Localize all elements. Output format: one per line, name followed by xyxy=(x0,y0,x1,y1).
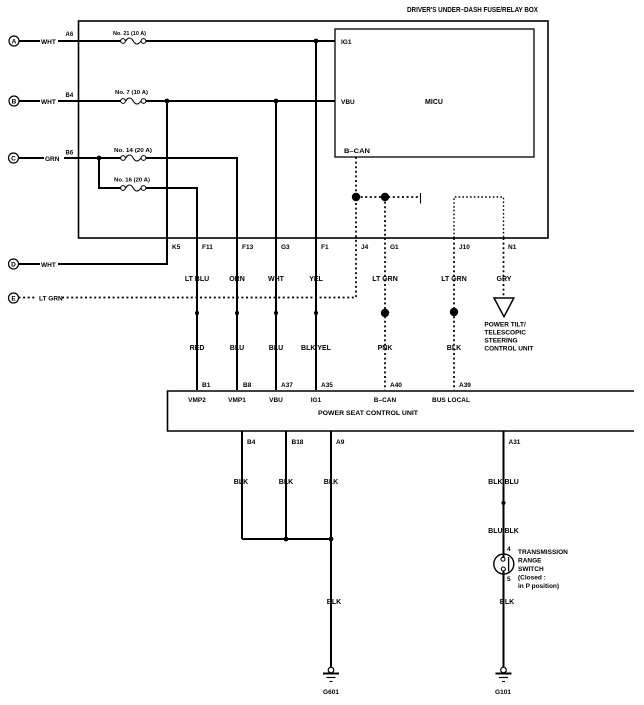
svg-text:No. 21 (10 A): No. 21 (10 A) xyxy=(113,31,146,37)
svg-text:B–CAN: B–CAN xyxy=(374,397,397,404)
svg-text:LT GRN: LT GRN xyxy=(441,276,467,283)
fuse No. 21 (10 A) xyxy=(113,31,146,44)
junction dot A9 join xyxy=(329,537,334,542)
svg-text:B6: B6 xyxy=(66,151,74,157)
svg-text:BLK: BLK xyxy=(500,599,514,606)
ground G101 xyxy=(495,667,511,696)
svg-text:G601: G601 xyxy=(323,689,339,696)
svg-text:RANGE: RANGE xyxy=(518,558,542,565)
junction dot B18 join xyxy=(284,537,289,542)
wire N1 dotted below box xyxy=(503,238,505,296)
svg-text:B4: B4 xyxy=(66,93,74,99)
svg-text:B18: B18 xyxy=(292,439,304,446)
wire K5 vertical inside box xyxy=(166,101,168,238)
svg-text:ORN: ORN xyxy=(229,276,245,283)
wire B4 below box xyxy=(241,431,243,539)
svg-text:SWITCH: SWITCH xyxy=(518,566,544,573)
svg-text:GRN: GRN xyxy=(45,156,60,163)
connector D xyxy=(9,259,56,269)
svg-text:TRANSMISSION: TRANSMISSION xyxy=(518,549,568,556)
svg-text:LT GRN: LT GRN xyxy=(39,296,63,303)
svg-text:MICU: MICU xyxy=(425,99,443,106)
svg-text:WHT: WHT xyxy=(41,99,56,106)
B-CAN dotted net inside box xyxy=(356,157,421,238)
svg-text:A37: A37 xyxy=(281,382,293,389)
svg-text:4: 4 xyxy=(507,546,511,553)
svg-text:No. 7 (10 A): No. 7 (10 A) xyxy=(115,90,148,96)
svg-text:B–CAN: B–CAN xyxy=(344,148,370,155)
svg-text:in P position): in P position) xyxy=(518,583,559,590)
dotted link J10 to N1 inside box xyxy=(454,197,504,238)
BLK labels row xyxy=(234,479,519,486)
svg-text:E: E xyxy=(11,296,16,303)
wire F13 below box xyxy=(236,238,238,390)
svg-text:BLK: BLK xyxy=(447,345,461,352)
svg-text:BLK: BLK xyxy=(279,479,293,486)
svg-text:BLU/BLK: BLU/BLK xyxy=(488,528,519,535)
svg-text:BUS LOCAL: BUS LOCAL xyxy=(432,397,470,404)
svg-text:F11: F11 xyxy=(202,244,213,251)
svg-text:BLK/YEL: BLK/YEL xyxy=(301,345,332,352)
svg-text:No. 16 (20 A): No. 16 (20 A) xyxy=(114,178,150,184)
connector E xyxy=(9,293,64,303)
svg-text:K5: K5 xyxy=(172,244,181,251)
wire F11 below box xyxy=(196,238,198,390)
svg-text:VMP2: VMP2 xyxy=(188,397,206,404)
svg-text:VBU: VBU xyxy=(341,99,355,106)
svg-text:A9: A9 xyxy=(336,439,345,446)
connector A xyxy=(9,32,74,46)
node K5 tap on wire B xyxy=(165,99,170,104)
svg-text:J4: J4 xyxy=(361,244,369,251)
wire A31 below box xyxy=(503,431,505,558)
wire colour labels upper row xyxy=(185,276,512,283)
svg-text:A6: A6 xyxy=(66,32,74,38)
transmission range switch S1 xyxy=(494,546,568,590)
wire G3 below box xyxy=(275,238,277,390)
svg-text:No. 14 (20 A): No. 14 (20 A) xyxy=(114,148,152,154)
driver's under-dash fuse/relay box xyxy=(79,7,549,238)
inline connector dot F11 wire xyxy=(195,311,199,315)
connector C xyxy=(9,151,74,164)
wire A9 below box xyxy=(330,431,332,667)
wire G3 vertical inside box xyxy=(275,101,277,238)
svg-text:B1: B1 xyxy=(202,382,211,389)
svg-text:STEERING: STEERING xyxy=(484,338,517,345)
MICU U1 xyxy=(335,29,534,157)
svg-text:BLK: BLK xyxy=(324,479,338,486)
ground G601 xyxy=(323,667,339,696)
wire colour labels lower row xyxy=(190,345,462,352)
pin labels above power seat control unit xyxy=(202,382,471,389)
svg-text:J10: J10 xyxy=(459,244,470,251)
wire fuse 14 output to F13 corner xyxy=(146,158,237,238)
wire A from fuse to MICU IG1 xyxy=(146,40,335,42)
svg-text:B4: B4 xyxy=(247,439,256,446)
svg-text:F13: F13 xyxy=(242,244,254,251)
power seat control unit box xyxy=(168,391,635,431)
wire F1 vertical inside box xyxy=(315,41,317,238)
svg-text:DRIVER'S UNDER–DASH FUSE/RELAY: DRIVER'S UNDER–DASH FUSE/RELAY BOX xyxy=(407,7,538,14)
wire C from label to fuse 14 xyxy=(64,157,121,159)
node F1 tap on wire A xyxy=(314,39,319,44)
inline connector dot F1 wire xyxy=(314,311,318,315)
fuse No. 7 (10 A) xyxy=(115,90,148,104)
wire E dotted to J4 xyxy=(62,238,356,298)
wire B from label to fuse xyxy=(58,100,121,102)
svg-text:GRY: GRY xyxy=(497,276,512,283)
svg-text:POWER TILT/: POWER TILT/ xyxy=(484,322,526,329)
svg-text:A35: A35 xyxy=(321,382,333,389)
svg-text:BLU: BLU xyxy=(269,345,283,352)
junction dot B-CAN/G1 xyxy=(381,193,389,201)
svg-text:WHT: WHT xyxy=(41,39,56,46)
svg-text:WHT: WHT xyxy=(268,276,285,283)
wire switch to ground G101 xyxy=(503,571,505,667)
svg-text:F1: F1 xyxy=(321,244,329,251)
svg-text:WHT: WHT xyxy=(41,262,56,269)
svg-text:VBU: VBU xyxy=(269,397,283,404)
inline connector dot G3 wire xyxy=(274,311,278,315)
svg-text:A31: A31 xyxy=(509,439,521,446)
join wire B4/B18 to A9 xyxy=(242,538,331,540)
wire G1 dotted below box xyxy=(384,238,386,390)
svg-text:N1: N1 xyxy=(508,244,517,251)
wire branch down to fuse 16 xyxy=(99,158,121,188)
wire fuse 16 output to F11 corner xyxy=(146,188,197,238)
svg-text:5: 5 xyxy=(507,576,511,583)
wire F1 below box xyxy=(315,238,317,390)
inline connector dot A31 wire xyxy=(501,501,505,505)
junction dot B-CAN/J4 xyxy=(352,193,360,201)
wire D to K5 xyxy=(58,238,167,264)
inline connector dot G1 wire xyxy=(381,309,389,317)
svg-text:BLK: BLK xyxy=(327,599,341,606)
svg-text:TELESCOPIC: TELESCOPIC xyxy=(484,330,526,337)
fuse No. 16 (20 A) xyxy=(114,178,150,192)
node G3 tap on wire B xyxy=(274,99,279,104)
svg-text:BLK/BLU: BLK/BLU xyxy=(488,479,519,486)
node branch to fuse 16 xyxy=(97,156,102,161)
connector pin labels at box bottom xyxy=(172,244,517,251)
svg-text:G3: G3 xyxy=(281,244,290,251)
wire J10 dotted below box xyxy=(453,238,455,390)
svg-text:YEL: YEL xyxy=(309,276,323,283)
svg-text:POWER SEAT CONTROL UNIT: POWER SEAT CONTROL UNIT xyxy=(318,410,418,417)
pin labels below power seat control unit xyxy=(247,439,521,446)
fuse No. 14 (20 A) xyxy=(114,148,152,161)
svg-text:BLK: BLK xyxy=(234,479,248,486)
inline connector dot F13 wire xyxy=(235,311,239,315)
wire B18 below box xyxy=(285,431,287,539)
svg-text:G101: G101 xyxy=(495,689,511,696)
svg-text:(Closed :: (Closed : xyxy=(518,575,546,582)
svg-text:VMP1: VMP1 xyxy=(228,397,246,404)
svg-text:D: D xyxy=(11,262,16,269)
svg-text:PNK: PNK xyxy=(378,345,393,352)
wire G1 dotted vertical inside box xyxy=(384,197,386,238)
svg-text:LT BLU: LT BLU xyxy=(185,276,209,283)
svg-text:G1: G1 xyxy=(390,244,399,251)
svg-text:A: A xyxy=(12,39,17,46)
svg-text:C: C xyxy=(11,156,16,163)
svg-text:IG1: IG1 xyxy=(311,397,322,404)
svg-text:IG1: IG1 xyxy=(341,39,352,46)
svg-text:LT GRN: LT GRN xyxy=(372,276,398,283)
svg-text:B8: B8 xyxy=(243,382,252,389)
power tilt/telescopic steering control unit xyxy=(484,298,533,353)
svg-text:RED: RED xyxy=(190,345,205,352)
svg-text:A40: A40 xyxy=(390,382,402,389)
svg-text:A39: A39 xyxy=(459,382,471,389)
connector B xyxy=(9,93,74,106)
wire A from label to fuse xyxy=(58,40,121,42)
svg-text:B: B xyxy=(12,99,17,106)
svg-text:CONTROL UNIT: CONTROL UNIT xyxy=(484,346,533,353)
inline connector dot J10 wire xyxy=(450,308,458,316)
wire B from fuse to MICU VBU xyxy=(146,100,335,102)
svg-text:BLU: BLU xyxy=(230,345,244,352)
